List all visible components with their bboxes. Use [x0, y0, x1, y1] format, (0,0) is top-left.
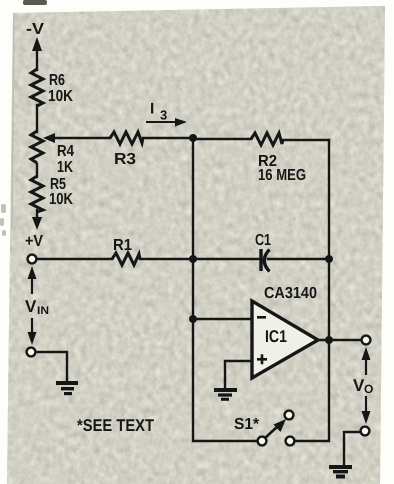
faint bleed-through marks on left margin [0, 204, 6, 236]
svg-text:C1: C1 [255, 232, 271, 249]
svg-text:R3: R3 [114, 151, 136, 168]
terminal Vin upper [28, 255, 37, 264]
wire: right rail vertical (R2 corner down to switch) [295, 140, 329, 441]
resistor R6 [31, 69, 43, 106]
svg-text:CA3140: CA3140 [264, 285, 317, 302]
node B junction dot [189, 255, 197, 263]
resistor R4 (pot) [31, 131, 43, 163]
op-amp plus sign [257, 354, 267, 364]
svg-text:IN: IN [37, 305, 49, 317]
svg-text:16 MEG: 16 MEG [258, 167, 306, 184]
scan smudge top edge [23, 0, 47, 5]
Vin arrow down [28, 318, 37, 345]
op-amp U1 triangle [252, 301, 318, 378]
wire: -V rail down to R6 [36, 47, 38, 70]
node A junction dot [189, 134, 197, 142]
wire: R3 to node A [143, 137, 193, 139]
wire: Vin lower terminal to ground [36, 352, 67, 380]
svg-text:R1: R1 [113, 237, 132, 254]
wire: Vin terminal to R1 [36, 258, 112, 260]
svg-text:V: V [25, 297, 37, 316]
svg-text:1K: 1K [57, 159, 73, 176]
wire: R6 to R4 [36, 105, 38, 132]
svg-text:10K: 10K [49, 191, 73, 208]
R4 wiper arrow [43, 133, 55, 143]
wire: left rail vertical (node A down to switch) [193, 138, 262, 441]
wire: op-amp noninverting input to ground [225, 361, 252, 387]
wire: op-amp output to Vo terminal [318, 339, 361, 341]
ground (op-amp + input) [214, 388, 237, 401]
op-amp minus sign [257, 316, 266, 319]
wire: node A to R2 [193, 138, 251, 140]
wire: R4 to R5 [36, 164, 38, 177]
junction dot output [325, 336, 333, 344]
arrow to -V [32, 37, 42, 51]
svg-text:+V: +V [25, 233, 43, 250]
svg-text:R6: R6 [49, 72, 65, 89]
wire: node B to op-amp inverting input [193, 318, 252, 320]
svg-text:*SEE TEXT: *SEE TEXT [77, 416, 155, 435]
switch S1 [258, 411, 295, 446]
terminal Vo upper [362, 336, 371, 345]
svg-text:3: 3 [160, 108, 167, 123]
wire: R1 to node B [140, 258, 259, 260]
resistor R1 [112, 253, 140, 265]
Vo arrow up [362, 347, 371, 375]
svg-text:-V: -V [26, 21, 44, 38]
svg-text:IC1: IC1 [265, 327, 287, 346]
resistor R5 [31, 176, 43, 212]
wire: R5 to +V arrow [36, 210, 38, 222]
terminal Vin lower [27, 348, 36, 357]
wire: R2 to right rail corner [283, 139, 329, 141]
svg-text:10K: 10K [48, 88, 73, 105]
junction dot inverting input [189, 315, 197, 323]
Vo arrow down [362, 396, 371, 424]
svg-text:R4: R4 [57, 143, 74, 160]
svg-text:O: O [364, 382, 373, 396]
resistor R3 [110, 132, 143, 144]
capacitor C1 [261, 249, 270, 272]
current arrow I3 [146, 118, 187, 127]
wire: lower Vo terminal to ground [344, 432, 360, 464]
ground (Vin) [56, 381, 78, 395]
junction dot C1 right [325, 255, 333, 263]
Vin arrow up [28, 266, 37, 294]
wire: C1 to right rail [268, 258, 329, 260]
arrow to +V [32, 217, 42, 230]
ground (Vo) [329, 465, 352, 479]
terminal Vo lower [361, 427, 370, 436]
resistor R2 [251, 133, 283, 145]
edge shadow line between white margin and paper [12, 13, 14, 230]
wire: R4 wiper line to R3 [53, 137, 110, 139]
svg-text:I: I [150, 101, 154, 118]
svg-text:S1*: S1* [234, 416, 260, 433]
